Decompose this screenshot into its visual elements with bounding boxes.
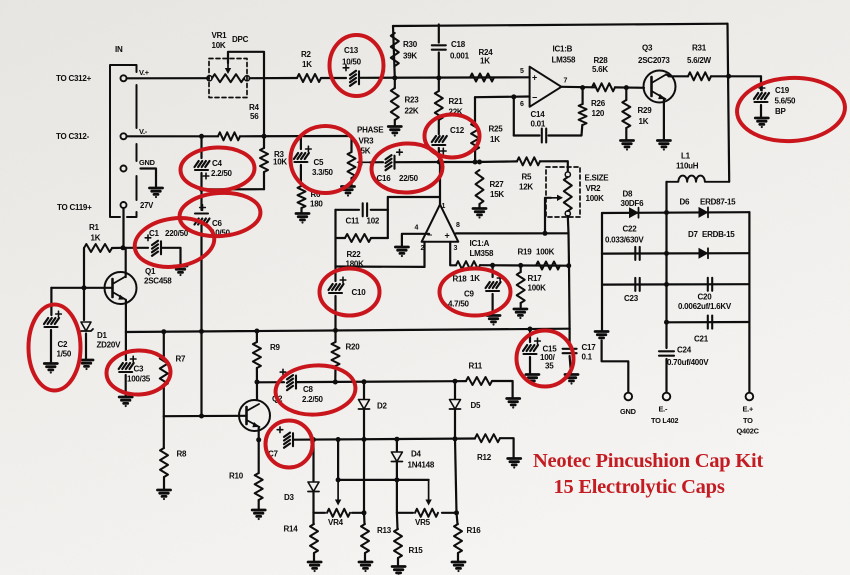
junction R1 / C1 / 27V bbox=[121, 245, 126, 250]
junction wiper wire left bbox=[336, 477, 341, 482]
svg-text:−: − bbox=[427, 230, 432, 240]
junction D2 / R13 bbox=[362, 437, 367, 442]
svg-text:R8: R8 bbox=[177, 450, 188, 459]
wire C4 node to R3 bottom bbox=[202, 188, 265, 190]
wire C10 to long wire bbox=[334, 296, 336, 330]
wire C19 to ground bbox=[760, 105, 762, 117]
svg-text:1K: 1K bbox=[470, 274, 480, 283]
svg-text:R27: R27 bbox=[490, 180, 505, 189]
svg-text:LM358: LM358 bbox=[552, 56, 576, 65]
junction D4 bbox=[394, 437, 399, 442]
red circle C7 bbox=[266, 421, 313, 468]
terminal E.- bbox=[663, 393, 671, 401]
resistor R30 bbox=[391, 33, 399, 66]
svg-text:22K: 22K bbox=[405, 107, 419, 116]
wire V.- to R4 bbox=[127, 135, 218, 137]
svg-text:102: 102 bbox=[367, 217, 380, 226]
junction emitter / C7 row bbox=[256, 437, 261, 442]
wire to R13 bbox=[363, 513, 366, 524]
wire C16 to node bbox=[395, 161, 440, 163]
resistor R20 bbox=[332, 342, 340, 366]
svg-text:E.-: E.- bbox=[659, 405, 668, 414]
wire R15 to ground bbox=[397, 558, 399, 566]
junction R9 bbox=[254, 329, 259, 334]
resistor R15 bbox=[394, 529, 402, 558]
diode D2 bbox=[359, 400, 370, 410]
wire C2 to ground bbox=[50, 330, 52, 362]
wire C14 left bbox=[514, 134, 540, 136]
wire R21 to C12 bbox=[438, 120, 440, 134]
wire node to R25 R27 R5 bbox=[439, 160, 517, 163]
svg-text:Q402C: Q402C bbox=[737, 427, 760, 436]
svg-text:C8: C8 bbox=[303, 385, 314, 394]
ground output rail bbox=[595, 332, 608, 342]
wire R4 to C5 and VR3 top bbox=[240, 135, 352, 138]
capacitor C8 bbox=[287, 375, 296, 390]
red circle C6 bbox=[178, 190, 262, 239]
VR1 terminal left bbox=[207, 76, 212, 81]
svg-text:100K: 100K bbox=[528, 284, 547, 293]
Q1 base bar bbox=[111, 279, 114, 297]
Q2 base bar bbox=[245, 407, 248, 424]
pin TO C312- bbox=[121, 133, 127, 139]
capacitor C1 bbox=[152, 241, 161, 256]
diode D6 ERD87-15 bbox=[699, 207, 709, 218]
svg-text:C14: C14 bbox=[531, 110, 546, 119]
junction VR4 wiper line bbox=[336, 437, 341, 442]
wire 27V pin down to R1 node bbox=[122, 209, 124, 248]
svg-text:R12: R12 bbox=[477, 453, 492, 462]
svg-text:0.70uf/400V: 0.70uf/400V bbox=[667, 358, 709, 367]
wire base Q1 bbox=[84, 287, 113, 289]
svg-text:R26: R26 bbox=[591, 99, 606, 108]
wire wiper to C16 bbox=[370, 161, 383, 163]
wire VR1 wiper to R3 top bbox=[228, 52, 264, 148]
wire C11 right bbox=[371, 209, 388, 211]
potentiometer VR2 element bbox=[564, 177, 572, 211]
capacitor C9 bbox=[486, 282, 501, 291]
svg-text:R30: R30 bbox=[403, 40, 418, 49]
resistor R31 bbox=[688, 72, 711, 80]
wire C2 to Q1 base bbox=[51, 287, 84, 289]
svg-text:VR1: VR1 bbox=[212, 31, 228, 40]
svg-text:C23: C23 bbox=[624, 294, 639, 303]
ground C2 bbox=[44, 364, 57, 374]
terminal GND bbox=[625, 393, 633, 401]
junction C10 bbox=[333, 328, 338, 333]
svg-text:+: + bbox=[532, 73, 537, 83]
svg-text:1K: 1K bbox=[302, 60, 312, 69]
wire pin7 to R28 bbox=[561, 86, 595, 89]
wire R22 right stub bbox=[371, 237, 388, 239]
wire R26 top bbox=[581, 88, 583, 104]
capacitor C13 bbox=[350, 71, 359, 86]
wire VR2 bottom down to long wire bbox=[568, 216, 570, 329]
resistor R8 bbox=[160, 448, 168, 477]
VR2 terminal top bbox=[565, 172, 570, 177]
VR4 wiper arrow bbox=[337, 480, 339, 501]
svg-text:4: 4 bbox=[415, 225, 419, 232]
resistor R10 bbox=[255, 473, 263, 500]
resistor R29 bbox=[622, 100, 630, 128]
wire C1 to ground bbox=[161, 248, 181, 265]
ground R15 bbox=[392, 567, 405, 575]
svg-text:TO C312-: TO C312- bbox=[56, 132, 90, 141]
capacitor C22 bbox=[635, 247, 639, 260]
resistor R6 bbox=[298, 186, 306, 208]
svg-text:1: 1 bbox=[442, 203, 446, 210]
junction VR5 right / R16 bbox=[454, 510, 459, 515]
resistor R9 bbox=[253, 342, 261, 368]
wire to C17 bbox=[568, 329, 570, 346]
red circle C9 bbox=[440, 269, 511, 316]
svg-text:C22: C22 bbox=[623, 225, 638, 234]
svg-text:IC1:A: IC1:A bbox=[470, 239, 490, 248]
wire C18 to R21 bbox=[438, 53, 440, 92]
red circle C2 bbox=[29, 305, 81, 391]
wire wiper horizontal bbox=[338, 479, 429, 481]
VR2 wiper arrow bbox=[551, 197, 558, 199]
resistor R7 bbox=[160, 356, 168, 386]
junction C6 / base Q2 bbox=[199, 414, 204, 419]
svg-text:R17: R17 bbox=[528, 274, 543, 283]
wire VR2 wiper jog bbox=[545, 198, 551, 233]
wire R17 ground stub bbox=[520, 303, 522, 308]
wire R8 to ground bbox=[163, 477, 165, 489]
svg-text:+: + bbox=[445, 231, 450, 241]
svg-text:TO: TO bbox=[743, 416, 753, 425]
Q1 collector stroke bbox=[113, 277, 126, 285]
svg-text:R9: R9 bbox=[270, 343, 281, 352]
pin 27V / TO C119+ bbox=[121, 202, 127, 208]
svg-text:VR2: VR2 bbox=[586, 184, 602, 193]
junction row4 bbox=[664, 320, 669, 325]
junction R17 bbox=[518, 263, 523, 268]
resistor R18 bbox=[456, 261, 480, 269]
VR5 wiper arrow bbox=[428, 480, 430, 501]
VR1 terminal right bbox=[244, 76, 249, 81]
wire D3 to VR4 left bbox=[312, 492, 314, 513]
wire to R11 bbox=[455, 380, 466, 382]
junction rail / R31 bbox=[726, 74, 731, 79]
svg-text:LM358: LM358 bbox=[470, 249, 494, 258]
svg-text:D1: D1 bbox=[97, 331, 108, 340]
junction R4 / R3 bbox=[262, 134, 267, 139]
wire rail to C18 bbox=[438, 25, 440, 43]
wire pin4 to ground bbox=[402, 234, 429, 246]
svg-text:L1: L1 bbox=[681, 152, 691, 161]
junction R19 right bbox=[566, 263, 571, 268]
ground D1 bbox=[80, 360, 93, 370]
svg-text:TO C312+: TO C312+ bbox=[56, 74, 92, 83]
wire D1 to ground bbox=[85, 334, 87, 360]
svg-text:5.6/2W: 5.6/2W bbox=[687, 56, 712, 65]
wire R25 to phase node bbox=[474, 150, 476, 162]
Q3 emitter stroke with arrow bbox=[652, 91, 666, 99]
resistor R17 bbox=[517, 272, 525, 303]
svg-text:TO L402: TO L402 bbox=[651, 416, 678, 425]
svg-text:C6: C6 bbox=[212, 219, 223, 228]
pin TO C312+ bbox=[121, 75, 127, 81]
svg-text:R25: R25 bbox=[489, 125, 504, 134]
Q3 collector stroke bbox=[652, 75, 667, 84]
capacitor C17 bbox=[563, 349, 577, 353]
svg-text:R7: R7 bbox=[176, 355, 187, 364]
ground VR3 bbox=[342, 187, 355, 197]
capacitor C16 bbox=[386, 155, 395, 170]
wire C13 to IC1B pin5 bbox=[359, 76, 530, 79]
diode D3 bbox=[308, 482, 319, 492]
connector J1 outline bbox=[110, 65, 137, 217]
wire Q1 collector up bbox=[125, 248, 127, 277]
wire VR3 top bbox=[350, 136, 352, 152]
wire R1 left down to D1 node bbox=[83, 248, 85, 288]
svg-text:C11: C11 bbox=[346, 217, 360, 226]
wire pin3 down bbox=[450, 242, 456, 265]
svg-text:IN: IN bbox=[115, 45, 123, 54]
wire to C3 bbox=[125, 332, 127, 360]
svg-text:D6: D6 bbox=[680, 198, 691, 207]
svg-text:100K: 100K bbox=[586, 194, 605, 203]
wire R14 to ground bbox=[313, 553, 315, 561]
svg-text:R31: R31 bbox=[692, 44, 707, 53]
resistor R24 bbox=[470, 74, 494, 82]
wire left rail rows bbox=[601, 213, 603, 254]
wire R27 ground stub bbox=[478, 204, 480, 208]
wire VR4 right stub bbox=[352, 512, 364, 514]
resistor R3 bbox=[260, 148, 268, 172]
junction wiper / pin8 wire bbox=[543, 231, 548, 236]
svg-text:R2: R2 bbox=[301, 50, 312, 59]
svg-text:TO C119+: TO C119+ bbox=[57, 203, 92, 212]
wire Q3 emitter down bbox=[663, 100, 665, 141]
potentiometer VR5 element bbox=[415, 509, 438, 517]
ground R6 bbox=[296, 214, 309, 224]
wire ground to GND terminal bbox=[602, 341, 629, 393]
svg-text:C5: C5 bbox=[314, 158, 325, 167]
ground R13 bbox=[359, 562, 372, 572]
wire C3 to ground bbox=[125, 375, 127, 396]
wire C9 to ground bbox=[492, 294, 494, 315]
resistor R13 bbox=[361, 524, 369, 553]
wire to R17 bbox=[520, 265, 522, 272]
Q2 collector stroke bbox=[247, 404, 260, 411]
svg-text:2.2/50: 2.2/50 bbox=[302, 395, 324, 404]
inductor L1 bbox=[667, 176, 730, 182]
wire C15 to ground bbox=[529, 357, 531, 374]
svg-text:VR4: VR4 bbox=[328, 518, 344, 527]
ground R27 bbox=[473, 209, 486, 219]
svg-text:1/50: 1/50 bbox=[57, 350, 72, 359]
svg-text:56: 56 bbox=[250, 112, 259, 121]
svg-text:180: 180 bbox=[310, 200, 323, 209]
ground R16 bbox=[452, 562, 465, 572]
transistor Q1 2SC458 bbox=[105, 272, 137, 304]
svg-text:ERDB-15: ERDB-15 bbox=[702, 230, 735, 239]
ground R14 bbox=[308, 562, 321, 572]
svg-text:0.033/630V: 0.033/630V bbox=[605, 236, 644, 245]
resistor R4 bbox=[218, 132, 240, 140]
wire R2 to C13 bbox=[321, 77, 346, 79]
wire down to C19 bbox=[760, 76, 762, 90]
svg-text:C20: C20 bbox=[698, 293, 713, 302]
wire long horizontal bbox=[126, 329, 570, 332]
diode D4 bbox=[391, 452, 402, 462]
wire D4 down to VR5 left bbox=[396, 462, 398, 513]
wire C4 to C6 bbox=[200, 173, 202, 210]
svg-text:C1: C1 bbox=[149, 229, 160, 238]
wire down to C14 bbox=[513, 97, 515, 136]
capacitor C4 bbox=[195, 161, 210, 170]
junction R20 / C8 row bbox=[333, 380, 338, 385]
resistor R28 bbox=[592, 83, 615, 91]
svg-text:PHASE: PHASE bbox=[357, 126, 384, 135]
svg-text:22/50: 22/50 bbox=[399, 174, 419, 183]
wire L1 left down to diode row bbox=[665, 182, 667, 213]
red circle C1 bbox=[132, 213, 218, 272]
wire C11 left bbox=[336, 209, 360, 211]
svg-text:0.0062uf/1.6KV: 0.0062uf/1.6KV bbox=[678, 302, 732, 311]
resistor R16 bbox=[454, 524, 462, 553]
Q2 emitter stroke with arrow bbox=[247, 420, 260, 427]
svg-text:C3: C3 bbox=[134, 365, 145, 374]
op-amp U1B IC1:B LM358 bbox=[530, 67, 562, 107]
potentiometer VR4 element bbox=[327, 509, 350, 517]
wire collector to C8 bbox=[257, 381, 284, 383]
svg-text:VR5: VR5 bbox=[415, 518, 431, 527]
svg-text:D4: D4 bbox=[411, 450, 422, 459]
wire top rail bbox=[393, 24, 728, 26]
wire V.+ to VR1 bbox=[127, 77, 209, 79]
svg-text:D7: D7 bbox=[688, 230, 699, 239]
svg-text:R5: R5 bbox=[522, 173, 533, 182]
svg-text:120: 120 bbox=[592, 109, 605, 118]
wire C8 row right bbox=[296, 380, 455, 383]
svg-text:10/50: 10/50 bbox=[342, 58, 362, 67]
junction C6 vertical bbox=[199, 329, 204, 334]
wire row C21 bbox=[667, 321, 750, 323]
ground R29 bbox=[621, 141, 634, 151]
svg-text:0.01: 0.01 bbox=[531, 120, 546, 129]
svg-text:C17: C17 bbox=[582, 343, 597, 352]
svg-text:V.+: V.+ bbox=[139, 68, 150, 77]
svg-text:Q3: Q3 bbox=[642, 44, 653, 53]
VR3 wiper arrow bbox=[362, 161, 371, 163]
capacitor C14 bbox=[542, 129, 546, 143]
capacitor C19 bbox=[754, 93, 769, 102]
ground C15 bbox=[526, 375, 539, 385]
svg-text:5.6/50: 5.6/50 bbox=[775, 97, 797, 106]
svg-text:R20: R20 bbox=[346, 343, 361, 352]
red circle C12 bbox=[425, 115, 480, 158]
wire R3 to C4-C6 node bbox=[263, 172, 265, 189]
wire node to R8 bbox=[163, 416, 165, 448]
wire C7 row right bbox=[293, 439, 475, 440]
resistor R22 bbox=[345, 234, 371, 242]
svg-text:C19: C19 bbox=[775, 86, 790, 95]
svg-text:R16: R16 bbox=[467, 526, 482, 535]
Q1 emitter stroke with arrow bbox=[113, 292, 126, 300]
junction D3 bbox=[311, 437, 316, 442]
svg-text:R18: R18 bbox=[453, 275, 468, 284]
svg-text:ZD20V: ZD20V bbox=[97, 341, 122, 350]
svg-text:C18: C18 bbox=[451, 40, 466, 49]
ground C3 bbox=[119, 397, 132, 407]
wire R16 to ground bbox=[457, 553, 459, 561]
wire R28 to Q3 base bbox=[615, 86, 644, 89]
wire row D8 D6 bbox=[602, 211, 749, 214]
resistor R23 bbox=[391, 88, 399, 120]
transistor Q3 2SC2073 bbox=[644, 71, 676, 103]
capacitor C7 bbox=[284, 433, 293, 448]
wire row C23 C20 bbox=[602, 283, 749, 286]
junction R27 bbox=[477, 160, 482, 165]
wire mid rail down to C24 bbox=[665, 213, 667, 349]
wire to D5 bbox=[454, 381, 456, 399]
svg-text:220/50: 220/50 bbox=[165, 229, 189, 238]
svg-text:15K: 15K bbox=[490, 190, 504, 199]
junction R29 / base wire bbox=[624, 85, 629, 90]
wire C6 down to Q2 base node bbox=[200, 225, 202, 416]
wire left rail to ground bbox=[601, 254, 603, 331]
wire Q1 emitter down bbox=[125, 300, 127, 332]
wire R20 to C8 row bbox=[334, 366, 336, 382]
potentiometer VR2 dashed box bbox=[546, 167, 580, 217]
capacitor C10 bbox=[329, 284, 344, 293]
wire right rail to E+ terminal bbox=[748, 212, 750, 392]
svg-text:6: 6 bbox=[520, 101, 524, 108]
svg-text:R4: R4 bbox=[249, 103, 260, 112]
wire C14 right to R26 bbox=[549, 125, 583, 136]
ground R12 bbox=[508, 459, 521, 469]
svg-text:12K: 12K bbox=[519, 183, 533, 192]
wire R9 to Q2 collector bbox=[256, 368, 258, 400]
svg-text:110uH: 110uH bbox=[676, 162, 699, 171]
svg-text:D3: D3 bbox=[284, 493, 295, 502]
potentiometer VR3 element bbox=[348, 152, 356, 178]
wire feedback top bbox=[388, 197, 440, 210]
junction VR4 right / R13 bbox=[362, 510, 367, 515]
wire R1 to node bbox=[112, 247, 124, 249]
svg-text:3: 3 bbox=[454, 245, 458, 252]
ground IC1A pin4 bbox=[395, 247, 408, 257]
wire GND pin to ground bbox=[141, 169, 157, 187]
svg-text:2SC2073: 2SC2073 bbox=[638, 56, 670, 65]
svg-text:D5: D5 bbox=[471, 401, 482, 410]
svg-text:E.SIZE: E.SIZE bbox=[585, 174, 610, 183]
resistor R19 bbox=[536, 262, 560, 270]
wire to C4 bbox=[200, 136, 202, 158]
junction C9 bbox=[490, 263, 495, 268]
wire C5 top bbox=[300, 136, 302, 149]
svg-text:R13: R13 bbox=[377, 526, 392, 535]
svg-text:IC1:B: IC1:B bbox=[553, 45, 573, 54]
wire to R25 bbox=[474, 97, 476, 122]
capacitor C18 bbox=[432, 45, 446, 49]
junction row3 bbox=[664, 282, 669, 287]
wire down to C2 bbox=[50, 288, 52, 315]
junction C15 bbox=[528, 327, 533, 332]
red circle C16 bbox=[370, 142, 443, 195]
wire to C15 bbox=[529, 329, 531, 342]
resistor R1 bbox=[84, 244, 112, 252]
junction C18 / V+ wire bbox=[436, 75, 441, 80]
diode D5 bbox=[450, 400, 461, 410]
svg-text:5.6K: 5.6K bbox=[592, 65, 608, 74]
svg-text:1K: 1K bbox=[91, 234, 101, 243]
red circle C4 bbox=[180, 146, 255, 192]
capacitor C21 bbox=[708, 316, 712, 329]
